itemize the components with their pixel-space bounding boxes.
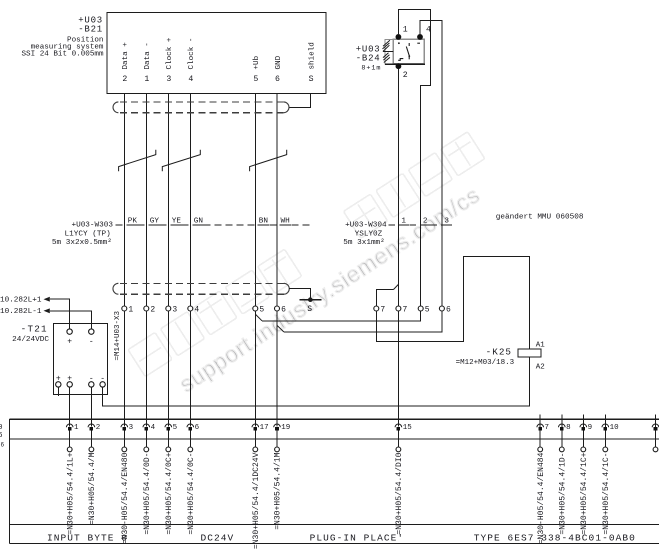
T21 output labels	[56, 374, 105, 383]
position sensor B21 box	[107, 13, 326, 94]
svg-text:=N30+H05/54.4/0D-: =N30+H05/54.4/0D-	[143, 453, 152, 535]
twisted pair mark Clock	[162, 150, 200, 172]
svg-text:6: 6	[1, 442, 5, 449]
B24 device tag	[356, 44, 381, 63]
B21 pin numbers	[122, 75, 313, 84]
module socket 3	[121, 424, 134, 545]
B24 pin numbers	[403, 26, 431, 80]
wire X3:6 to module 19	[276, 311, 278, 427]
svg-text:1: 1	[74, 424, 79, 432]
svg-text:3: 3	[166, 75, 171, 84]
wire Data- pin1 to X3:2	[145, 94, 147, 306]
svg-text:2: 2	[403, 71, 408, 80]
relay coil K25	[518, 349, 541, 357]
branch X3:5b to +Ub net	[262, 311, 421, 321]
svg-text:-K25: -K25	[486, 347, 512, 358]
svg-text:2: 2	[150, 306, 155, 315]
module legend texts	[47, 533, 636, 544]
module socket 10	[602, 415, 619, 535]
svg-text:S: S	[309, 75, 314, 84]
svg-text:3: 3	[444, 217, 449, 225]
svg-text:YE: YE	[172, 217, 182, 225]
svg-text:DC24V: DC24V	[201, 533, 235, 544]
svg-text:L1YCY (TP): L1YCY (TP)	[65, 230, 111, 238]
branch X3:6b to GND net	[284, 311, 442, 332]
wire X3:1 to module 3	[123, 311, 125, 427]
svg-text:=N30+H05/54.4/M: =N30+H05/54.4/M	[88, 452, 97, 525]
svg-text:=N30+H05/54.4/1D-: =N30+H05/54.4/1D-	[558, 453, 567, 535]
svg-text:=N30+H05/54.4/1C-: =N30+H05/54.4/1C-	[602, 453, 611, 535]
svg-text:GY: GY	[150, 217, 160, 225]
svg-text:2: 2	[96, 424, 101, 432]
svg-text:=N30+H05/54.4/DI0: =N30+H05/54.4/DI0	[395, 452, 404, 534]
svg-text:TYPE 6ES7 338-4BC01-0AB0: TYPE 6ES7 338-4BC01-0AB0	[474, 533, 636, 544]
B24 terminal dots	[396, 34, 402, 40]
svg-text:3: 3	[129, 424, 134, 432]
svg-text:5: 5	[253, 75, 258, 84]
svg-text:PLUG-IN PLACE': PLUG-IN PLACE'	[310, 533, 405, 544]
svg-text:geändert MMU 060508: geändert MMU 060508	[496, 213, 584, 221]
wire X3:3 to module 5	[167, 311, 169, 427]
svg-text:15: 15	[403, 424, 413, 432]
svg-text:S: S	[307, 305, 312, 314]
svg-text:-B21: -B21	[78, 25, 103, 35]
svg-text:-: -	[89, 338, 94, 347]
wire X3:2 to module 4	[145, 311, 147, 427]
svg-text:WH: WH	[281, 217, 290, 225]
B21 device tag	[78, 16, 103, 35]
module socket 8	[558, 415, 570, 535]
wire L+1 to T21	[50, 299, 70, 329]
svg-text:PK: PK	[128, 217, 138, 225]
svg-text:INPUT BYTE 0: INPUT BYTE 0	[47, 533, 128, 544]
wire X3:7b to module 15	[397, 311, 399, 427]
B21 description	[21, 37, 103, 59]
module socket 1	[66, 424, 79, 535]
cable screen W303 (bottom)	[113, 283, 289, 294]
B24 contact lever	[398, 42, 420, 60]
svg-text:=M12+M03/18.3: =M12+M03/18.3	[456, 359, 515, 367]
module socket 9	[580, 415, 592, 535]
svg-text:6: 6	[275, 75, 280, 84]
svg-text:8: 8	[566, 424, 571, 432]
svg-text:+Ub: +Ub	[253, 55, 261, 69]
svg-text:9: 9	[588, 424, 593, 432]
twisted pair mark Ub/GND	[250, 150, 287, 172]
cable W303 core colours	[128, 217, 290, 225]
wire Clock+ pin3 to X3:3	[167, 94, 169, 306]
svg-text:2: 2	[122, 75, 127, 84]
svg-text:4: 4	[194, 306, 199, 315]
svg-text:+: +	[67, 338, 72, 347]
svg-text:17: 17	[260, 424, 269, 432]
wire B24:2 down	[397, 69, 399, 306]
limit switch B24	[383, 39, 426, 64]
module socket 19	[274, 424, 291, 530]
svg-text:6: 6	[195, 424, 200, 432]
svg-text:Clock -: Clock -	[188, 38, 196, 70]
svg-text:Data -: Data -	[144, 42, 152, 69]
cable W304 name	[343, 222, 387, 248]
wire shield S to cable screen	[289, 94, 311, 108]
svg-text:=N30+H05/54.4/1C+: =N30+H05/54.4/1C+	[580, 452, 589, 534]
cable W303 marker line	[116, 224, 313, 226]
rack edge refs	[0, 424, 5, 449]
wire Data+ pin2 to X3:1	[123, 94, 125, 306]
svg-text:1: 1	[401, 217, 406, 225]
module socket 4	[143, 424, 156, 535]
svg-text:=N30-H05/54.4/EN484: =N30-H05/54.4/EN484	[537, 452, 546, 544]
svg-text:6: 6	[281, 306, 286, 315]
svg-text:YSLY0Z: YSLY0Z	[355, 230, 383, 238]
svg-text:=N30-H05/54.4/EN480: =N30-H05/54.4/EN480	[121, 452, 130, 544]
svg-text:5: 5	[173, 424, 178, 432]
svg-text:5m 3x2x0.5mm²: 5m 3x2x0.5mm²	[52, 238, 112, 247]
svg-text:BN: BN	[259, 217, 268, 225]
svg-text:SSI 24 Bit 0.005mm: SSI 24 Bit 0.005mm	[21, 51, 103, 59]
wire T21 - to module 2	[90, 387, 92, 426]
T21 input terminals	[67, 329, 94, 334]
svg-text:2: 2	[423, 217, 428, 225]
wire relay A2 to T21 minus	[103, 357, 530, 406]
svg-text:7: 7	[403, 306, 408, 315]
svg-text:7: 7	[380, 306, 385, 315]
svg-text:6: 6	[446, 306, 451, 315]
wire X3:4 to module 6	[189, 311, 191, 427]
svg-text:19: 19	[281, 424, 290, 432]
wire Clock- pin4 to X3:4	[189, 94, 191, 306]
screen drain to S point	[289, 289, 310, 298]
svg-text:1: 1	[403, 26, 408, 35]
svg-text:7: 7	[545, 424, 550, 432]
wire B24:4 to X3:6b	[420, 21, 442, 307]
svg-text:10.282L+1: 10.282L+1	[0, 297, 42, 305]
B21 pin signal names	[122, 37, 316, 69]
module socket 2	[88, 424, 100, 525]
watermark	[128, 132, 485, 397]
svg-text:4: 4	[188, 75, 193, 84]
module sockets	[66, 415, 659, 549]
svg-text:8+1m: 8+1m	[361, 64, 381, 72]
module socket 17	[252, 424, 269, 549]
wire T21 + to module 1	[69, 387, 71, 426]
module socket 1	[652, 415, 659, 452]
svg-text:=N30+H05/54.4/0C+: =N30+H05/54.4/0C+	[165, 452, 174, 534]
cable W303 name	[52, 222, 113, 248]
svg-text:1: 1	[144, 75, 149, 84]
svg-text:=N30+H05/54.4/1DC24V: =N30+H05/54.4/1DC24V	[252, 452, 261, 549]
svg-text:10.282L-1: 10.282L-1	[0, 308, 42, 316]
svg-text:-T21: -T21	[21, 324, 48, 335]
wire X3:5 to module 17	[254, 311, 256, 427]
module socket 15	[395, 424, 412, 535]
module socket 6	[187, 424, 200, 535]
X3 pin numbers	[128, 306, 451, 315]
wire X3:7a to relay A1	[376, 257, 529, 350]
svg-text:+U03-W303: +U03-W303	[71, 222, 113, 230]
svg-text:10: 10	[610, 424, 620, 432]
cable screen W303 (top)	[113, 102, 289, 113]
svg-text:+U03-W304: +U03-W304	[345, 222, 387, 230]
svg-text:5: 5	[259, 306, 264, 315]
wire +Ub pin5 to X3:5	[254, 94, 256, 306]
I/O module rack	[10, 419, 659, 543]
svg-text:3: 3	[172, 306, 177, 315]
svg-text:shield: shield	[309, 42, 317, 69]
svg-text:=N30+H05/54.4/0C-: =N30+H05/54.4/0C-	[187, 453, 196, 535]
module socket 5	[165, 424, 178, 535]
shield termination point S	[299, 299, 321, 301]
svg-text:A2: A2	[536, 363, 545, 371]
svg-text:-B24: -B24	[356, 53, 381, 63]
T21 output terminals	[56, 382, 106, 387]
power supply T21	[53, 323, 107, 394]
cable W304 marker	[389, 224, 453, 226]
module socket 7	[537, 415, 549, 545]
T21 stub unused	[57, 387, 59, 396]
cable W304 core numbers	[401, 217, 449, 225]
svg-text:5m 3x1mm²: 5m 3x1mm²	[343, 238, 385, 247]
svg-text:Data +: Data +	[122, 42, 130, 70]
wire B24:1 to X3:5b	[398, 10, 430, 307]
connector X3 pins	[122, 306, 445, 311]
svg-text:=M14+U03-X3: =M14+U03-X3	[114, 310, 122, 360]
svg-text:24/24VDC: 24/24VDC	[12, 336, 49, 344]
svg-text:=N30+H05/54.4/1L+: =N30+H05/54.4/1L+	[66, 452, 75, 534]
branch to X3:7a	[394, 284, 399, 289]
svg-text:GND: GND	[275, 55, 283, 69]
wire GND pin6 to X3:6	[276, 94, 278, 306]
svg-text:5: 5	[425, 306, 430, 315]
twisted pair mark Data	[119, 150, 156, 172]
svg-text:1: 1	[128, 306, 133, 315]
svg-text:4: 4	[151, 424, 156, 432]
svg-text:Clock +: Clock +	[166, 37, 174, 69]
svg-text:=N30+H05/54.4/1M: =N30+H05/54.4/1M	[274, 452, 283, 529]
svg-text:A1: A1	[536, 341, 546, 349]
svg-text:GN: GN	[194, 217, 203, 225]
wire L-1 to T21	[50, 311, 92, 329]
